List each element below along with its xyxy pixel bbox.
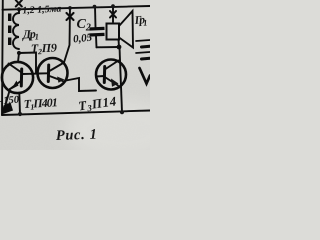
speaker Gr1 lead from top rail (112, 6, 114, 22)
transistor Q1 emitter lead to rail corner with big arrowhead (4, 89, 10, 110)
transistor Q3 (T3 P14) circle (96, 60, 126, 90)
transistor Q3 collector diagonal (106, 61, 119, 70)
transistor Q1 collector diagonal (9, 64, 22, 73)
capacitor C2 plates (90, 27, 105, 31)
wire: junction down past T3 to bottom rail (120, 47, 123, 112)
svg-text:Рис. 1: Рис. 1 (56, 127, 98, 144)
svg-text:Т2П9: Т2П9 (31, 41, 58, 57)
transistor Q3 base bar (103, 67, 106, 83)
speaker Gr1 bottom lead to junction (118, 40, 121, 48)
left frame line (1, 0, 4, 115)
wire: node A right then down to base link (19, 53, 36, 74)
speaker Gr1 horn (cone) (119, 11, 133, 48)
capacitor C2 top lead (94, 7, 97, 27)
measurement break mark X on speaker lead (110, 11, 116, 18)
switch Vk1 lever (V mark, cut by edge) (140, 68, 151, 84)
node A: junction of choke bottom / T1 collector / coupling wire (17, 51, 21, 55)
speaker Gr1 frame (square) (107, 24, 120, 40)
svg-text:1,2 1,5ма: 1,2 1,5ма (22, 3, 62, 16)
measurement break mark X on choke top lead (16, 0, 22, 6)
transistor Q3 emitter diagonal with arrow (106, 78, 119, 86)
node dot: speaker lead on top rail (111, 4, 115, 8)
transistor Q1 base bar (20, 69, 23, 86)
transistor Q1 emitter diagonal with arrow (10, 81, 22, 90)
paper background (0, 0, 150, 150)
measurement break mark X on T2 collector wire (67, 13, 74, 20)
node dot: C2 lead on top rail (93, 5, 97, 9)
transistor Q2 base bar (47, 65, 50, 82)
capacitor C2 bottom lead (95, 36, 98, 47)
transistor Q1 (T1 P401) circle (2, 62, 33, 93)
wire: base link between T1 and T2 (31, 73, 39, 75)
battery B1 cell short plate 1 (142, 45, 151, 49)
wire: T2 emitter to T3 base (66, 78, 96, 91)
bottom supply rail wire (2, 111, 150, 116)
transistor Q2 emitter diagonal with arrow (50, 76, 65, 82)
transistor Q2 collector diagonal (50, 63, 65, 72)
transistor Q2 base lead (to left) (39, 72, 48, 74)
battery B1 cell short plate 2 (142, 57, 151, 61)
wire: T2 collector up to top rail (with X break mark) (64, 8, 70, 63)
node dot: Q1 lead on bottom rail (18, 112, 22, 116)
transistor Q2 (T2 P9) circle (38, 58, 68, 88)
transistor Q3 base lead (to left) (96, 75, 104, 78)
wire: C2 bottom to speaker/collector node (97, 46, 120, 48)
svg-text:Т1П401: Т1П401 (23, 95, 58, 112)
battery B1 cell long plate 1 (136, 40, 150, 41)
battery B1 cell long plate 2 (136, 52, 150, 53)
svg-text:-150: -150 (0, 95, 20, 107)
svg-text:0,05: 0,05 (73, 32, 94, 46)
choke Dr1 core (dashed line) (8, 14, 11, 49)
node dot: speaker / C2 / T3 collector junction (117, 45, 122, 50)
node dot: T2 collector wire on top rail (68, 6, 72, 10)
transistor Q1 base lead (to right) (23, 73, 31, 75)
wire: node A to T1 collector (circle top) (18, 53, 19, 62)
node dot: T3 emitter wire on bottom rail (120, 110, 124, 114)
node dot: choke lead on top rail (17, 7, 21, 11)
choke Dr1 winding (3 arcs) (13, 9, 19, 49)
transistor Q1 lead: circle bottom to bottom rail (18, 93, 21, 114)
top supply rail wire (3, 6, 151, 10)
